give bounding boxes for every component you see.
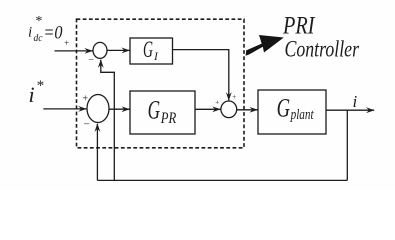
svg-text:G: G xyxy=(277,93,291,122)
svg-text:*: * xyxy=(35,14,42,29)
svg-text:PR: PR xyxy=(160,110,177,127)
wire S2 to G_PR xyxy=(109,108,130,110)
wire feedback bottom run xyxy=(97,179,347,181)
block G_plant xyxy=(258,90,326,134)
wire feedback down from output node xyxy=(346,110,348,180)
wire feedback up into S1 xyxy=(101,60,115,181)
wire G_plant output i xyxy=(326,109,374,111)
block G_PR xyxy=(130,91,195,134)
svg-text:i: i xyxy=(28,25,32,41)
svg-text:−: − xyxy=(88,55,95,66)
svg-text:PRI: PRI xyxy=(282,12,316,39)
svg-text:*: * xyxy=(36,78,44,94)
wire S1 to G_I xyxy=(107,49,130,51)
svg-text:+: + xyxy=(215,99,220,107)
svg-text:G: G xyxy=(143,37,153,63)
svg-text:i: i xyxy=(353,92,358,111)
dashed box PRI controller boundary xyxy=(77,19,245,148)
svg-text:+: + xyxy=(64,38,70,48)
wire input i* to summer S2 xyxy=(43,108,86,110)
summing junction S2 xyxy=(87,95,109,123)
svg-text:i: i xyxy=(29,82,35,107)
wire feedback up into S2 xyxy=(96,124,98,181)
svg-text:=0: =0 xyxy=(44,23,63,44)
svg-text:+: + xyxy=(82,94,89,105)
block G_I xyxy=(130,38,173,64)
wire G_I output down to summer S3 xyxy=(173,50,229,101)
svg-text:Controller: Controller xyxy=(285,37,360,63)
big arrow pointing to PRI Controller xyxy=(246,35,284,56)
wire input idc* to summer S1 xyxy=(55,50,93,52)
summing junction S1 xyxy=(93,42,107,58)
svg-text:dc: dc xyxy=(34,32,43,44)
summing junction S3 xyxy=(221,101,237,118)
svg-text:+: + xyxy=(232,93,237,101)
wire S3 to G_plant xyxy=(237,109,258,111)
svg-text:−: − xyxy=(83,119,90,131)
svg-text:G: G xyxy=(148,96,161,125)
svg-text:plant: plant xyxy=(290,107,314,123)
wire G_PR to S3 xyxy=(195,108,220,110)
